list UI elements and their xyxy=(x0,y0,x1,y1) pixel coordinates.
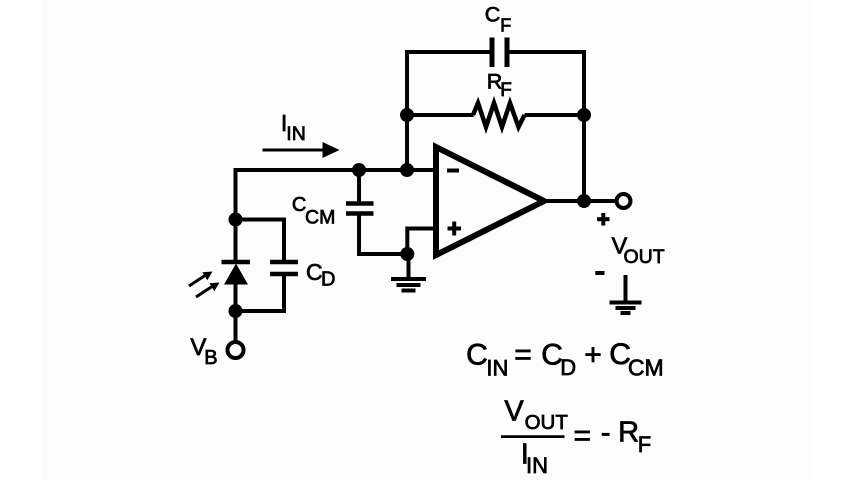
terminal VOUT xyxy=(617,194,631,208)
label minus output xyxy=(595,271,604,275)
wire RF row right xyxy=(525,113,585,117)
svg-text:CM: CM xyxy=(305,207,335,229)
equation CIN = CD + CCM xyxy=(466,338,664,380)
label plus output xyxy=(597,213,610,226)
svg-text:OUT: OUT xyxy=(624,246,665,268)
wire left feedback vertical xyxy=(405,50,409,172)
svg-text:F: F xyxy=(638,432,651,457)
node junction left-top feedback xyxy=(400,108,414,122)
node CCM tap xyxy=(352,163,366,177)
wire main input xyxy=(234,168,437,172)
svg-text:IN: IN xyxy=(286,123,306,145)
node junction right feedback xyxy=(577,108,591,122)
equation VOUT/IIN = -RF xyxy=(501,396,651,478)
node photodiode bottom xyxy=(229,304,243,318)
svg-text:=: = xyxy=(514,339,532,372)
svg-text:C: C xyxy=(485,2,501,26)
svg-text:OUT: OUT xyxy=(525,411,569,434)
ground output xyxy=(610,275,642,313)
capacitor CD xyxy=(236,220,299,312)
svg-text:B: B xyxy=(204,347,217,369)
node noninverting ground junction xyxy=(400,247,414,261)
capacitor CCM xyxy=(346,168,407,254)
wire right feedback vertical xyxy=(582,50,586,203)
wire photodiode bottom xyxy=(234,283,238,342)
svg-text:R: R xyxy=(618,417,639,449)
svg-text:CM: CM xyxy=(628,354,664,380)
node photodiode top xyxy=(229,213,243,227)
node output junction xyxy=(577,194,591,208)
wire top feedback left xyxy=(407,50,491,54)
current arrow IIN xyxy=(263,142,340,158)
wire top feedback right xyxy=(509,50,584,54)
wire output xyxy=(544,199,616,203)
node inverting input junction xyxy=(400,163,414,177)
svg-text:D: D xyxy=(321,269,335,291)
ground input xyxy=(391,254,426,291)
svg-text:IN: IN xyxy=(486,355,508,380)
svg-text:F: F xyxy=(500,16,511,36)
svg-text:=: = xyxy=(574,420,592,453)
svg-text:F: F xyxy=(500,80,512,101)
wire RF row left xyxy=(407,113,474,117)
wire noninverting input xyxy=(407,229,436,255)
photodiode D1 xyxy=(189,262,250,297)
svg-text:C: C xyxy=(466,339,488,372)
svg-text:D: D xyxy=(560,355,576,380)
svg-text:+: + xyxy=(584,339,602,372)
resistor RF xyxy=(473,103,525,127)
capacitor CF xyxy=(492,38,507,68)
svg-text:IN: IN xyxy=(526,453,548,478)
svg-text:V: V xyxy=(504,396,524,428)
op-amp U1 xyxy=(436,147,544,255)
wire photodiode top branch xyxy=(234,168,238,260)
terminal VB xyxy=(228,342,244,358)
